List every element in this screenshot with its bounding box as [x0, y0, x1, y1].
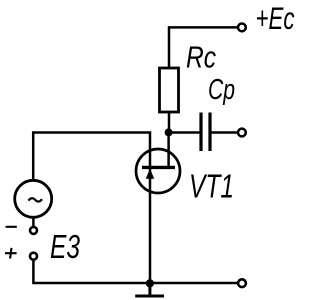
transistor gate bar: [142, 166, 175, 169]
wire top-left horizontal (gate net): [33, 133, 150, 181]
wire +Ec feed: [169, 27, 237, 68]
wire bottom rail: [32, 282, 237, 285]
resistor Rc: [160, 68, 179, 112]
svg-text:Ср: Ср: [208, 74, 235, 106]
svg-text:Е3: Е3: [50, 228, 80, 265]
svg-text:Rc: Rc: [186, 40, 216, 75]
svg-text:VT1: VT1: [189, 168, 234, 205]
plus sign: [5, 248, 17, 259]
terminal bottom right: [238, 279, 246, 287]
ground: [135, 283, 164, 296]
wire resistor to junction: [168, 112, 171, 133]
tilde inside source: [28, 198, 42, 201]
junction bottom node: [146, 279, 154, 287]
terminal +Ec: [238, 24, 246, 32]
wire bottom-left vertical: [32, 260, 35, 283]
AC source E3 circle: [15, 180, 52, 217]
wire source line: [149, 169, 152, 283]
wire capacitor to output: [212, 131, 238, 134]
junction drain node: [165, 128, 173, 136]
arrow on source: [146, 169, 155, 179]
wire drain into transistor: [167, 133, 170, 167]
terminal lower (plus): [30, 253, 37, 260]
terminal output middle: [238, 129, 246, 137]
svg-text:+Ec: +Ec: [256, 0, 295, 36]
wire source bottom stub: [32, 216, 35, 227]
minus sign: [6, 226, 17, 228]
wire junction to capacitor: [169, 131, 200, 134]
capacitor Cp: [201, 113, 210, 152]
terminal upper (minus): [30, 227, 37, 234]
transistor VT1 circle: [136, 149, 180, 193]
